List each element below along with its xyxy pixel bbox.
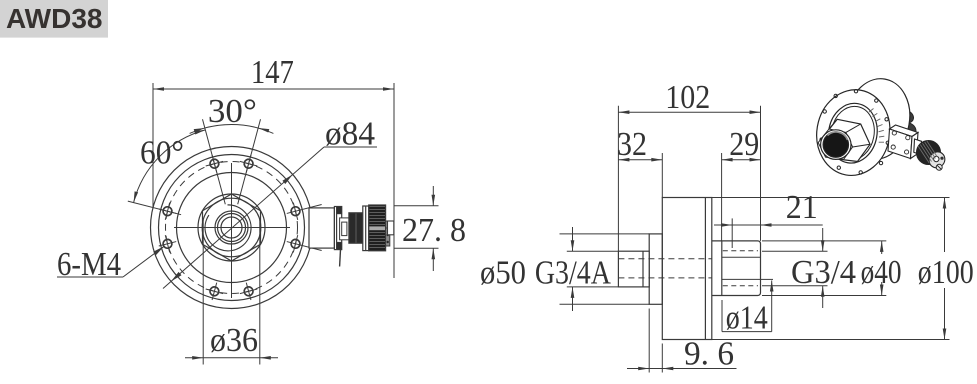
svg-text:ø84: ø84: [325, 116, 375, 153]
svg-text:AWD38: AWD38: [6, 3, 102, 34]
svg-text:21: 21: [786, 189, 818, 226]
svg-text:102: 102: [665, 79, 710, 116]
svg-text:ø36: ø36: [210, 322, 258, 359]
svg-text:G3/4: G3/4: [791, 254, 856, 291]
svg-text:ø50: ø50: [480, 255, 526, 292]
svg-text:6-M4: 6-M4: [57, 246, 121, 283]
svg-text:ø40: ø40: [861, 254, 902, 291]
svg-text:9. 6: 9. 6: [684, 336, 734, 373]
svg-text:29: 29: [729, 126, 759, 163]
svg-text:27. 8: 27. 8: [402, 212, 466, 249]
svg-text:60°: 60°: [140, 135, 184, 172]
svg-text:32: 32: [617, 126, 647, 163]
svg-text:ø14: ø14: [726, 300, 768, 337]
svg-text:G3/4A: G3/4A: [535, 255, 611, 292]
svg-text:147: 147: [251, 54, 294, 91]
svg-text:30°: 30°: [208, 93, 257, 130]
svg-text:ø100: ø100: [918, 254, 974, 291]
